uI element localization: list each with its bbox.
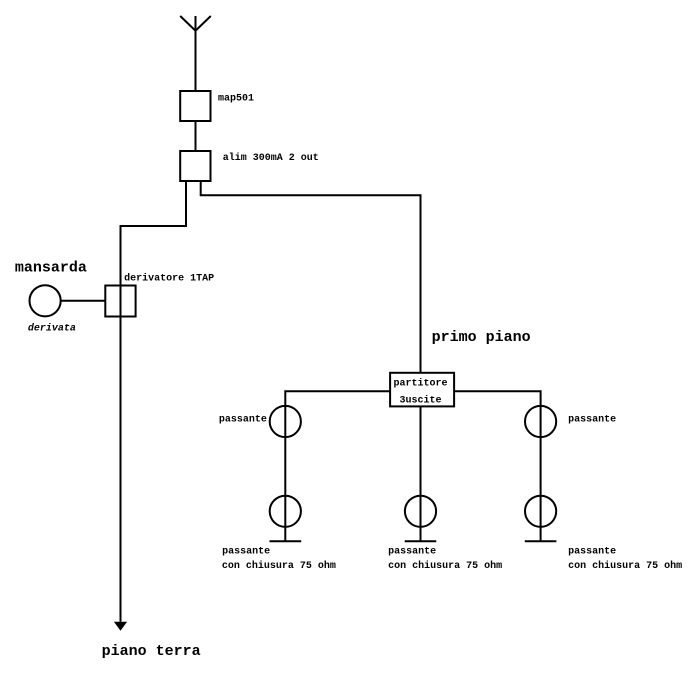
svg-text:alim 300mA 2 out: alim 300mA 2 out (223, 152, 319, 164)
tap derivatore 1TAP (105, 286, 135, 317)
outlet derivata (29, 285, 60, 316)
outlet passante left upper (270, 406, 301, 437)
arrow to piano terra (114, 622, 127, 631)
outlet passante left lower (270, 496, 301, 527)
svg-text:passante: passante (388, 547, 436, 558)
svg-text:derivata: derivata (28, 323, 76, 335)
svg-text:con chiusura 75 ohm: con chiusura 75 ohm (222, 560, 336, 572)
svg-text:3uscite: 3uscite (399, 395, 441, 407)
wire alim out1 to derivatore (left leg) (121, 181, 187, 622)
svg-text:map501: map501 (218, 94, 254, 105)
svg-text:mansarda: mansarda (15, 259, 87, 276)
svg-text:passante: passante (568, 415, 616, 426)
svg-text:passante: passante (568, 547, 616, 558)
outlet passante right upper (525, 406, 556, 437)
terminator 75 ohm center (405, 540, 437, 542)
wire derivata outlet to derivatore (61, 300, 106, 302)
amplifier U1 map501 (180, 91, 210, 121)
terminator 75 ohm left (270, 540, 302, 542)
svg-text:passante: passante (219, 415, 267, 426)
svg-text:piano terra: piano terra (102, 643, 201, 660)
svg-text:con chiusura 75 ohm: con chiusura 75 ohm (388, 560, 502, 572)
antenna ANT1 (180, 16, 211, 31)
splitter U3 partitore 3uscite (390, 373, 454, 407)
svg-text:partitore: partitore (393, 378, 447, 390)
terminator 75 ohm right (525, 540, 557, 542)
svg-text:derivatore 1TAP: derivatore 1TAP (124, 273, 214, 285)
wire partitore to center branch (420, 406, 422, 541)
outlet passante center lower (405, 496, 436, 527)
outlet passante right lower (525, 496, 556, 527)
power supply U2 alim 300mA 2 out (180, 151, 210, 181)
wire alim out2 to partitore (right leg) (201, 181, 421, 373)
svg-text:con chiusura 75 ohm: con chiusura 75 ohm (568, 560, 682, 572)
wire map501 to alim (195, 121, 197, 151)
wire antenna to map501 (195, 31, 197, 91)
svg-text:primo piano: primo piano (432, 329, 531, 346)
wire partitore to left branch (285, 391, 390, 541)
wire partitore to right branch (454, 391, 540, 541)
svg-text:passante: passante (222, 547, 270, 558)
